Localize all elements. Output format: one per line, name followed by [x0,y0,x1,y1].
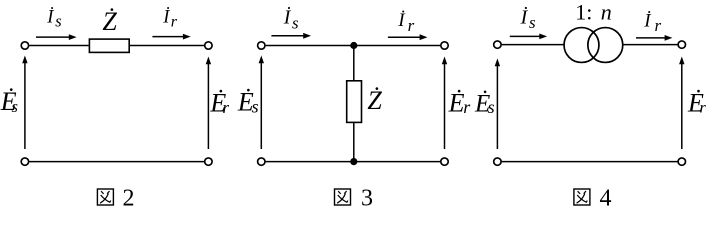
svg-text:İ: İ [397,10,406,31]
svg-text:İ: İ [283,6,292,29]
svg-text:İ: İ [46,6,54,27]
svg-text:s: s [12,97,18,116]
svg-text:r: r [700,100,707,117]
svg-text:r: r [223,98,230,117]
svg-text:s: s [488,97,495,117]
svg-text:4: 4 [600,186,612,209]
svg-text:s: s [529,13,536,32]
svg-text:İ: İ [643,10,652,31]
svg-text:n: n [601,0,612,24]
svg-text:r: r [463,97,471,117]
svg-text:r: r [408,16,415,35]
svg-text:r: r [655,16,662,35]
svg-text:İ: İ [162,6,170,27]
svg-text:Ż: Ż [102,7,117,36]
svg-text:İ: İ [520,5,529,28]
svg-text:2: 2 [123,186,135,209]
svg-text:Ż: Ż [367,86,382,115]
svg-text:3: 3 [361,186,373,209]
svg-text:Ė: Ė [448,88,465,117]
svg-text:s: s [55,12,61,31]
svg-text:s: s [292,14,299,33]
svg-text:1:: 1: [575,0,592,24]
svg-text:s: s [252,97,259,117]
svg-text:r: r [171,14,178,31]
